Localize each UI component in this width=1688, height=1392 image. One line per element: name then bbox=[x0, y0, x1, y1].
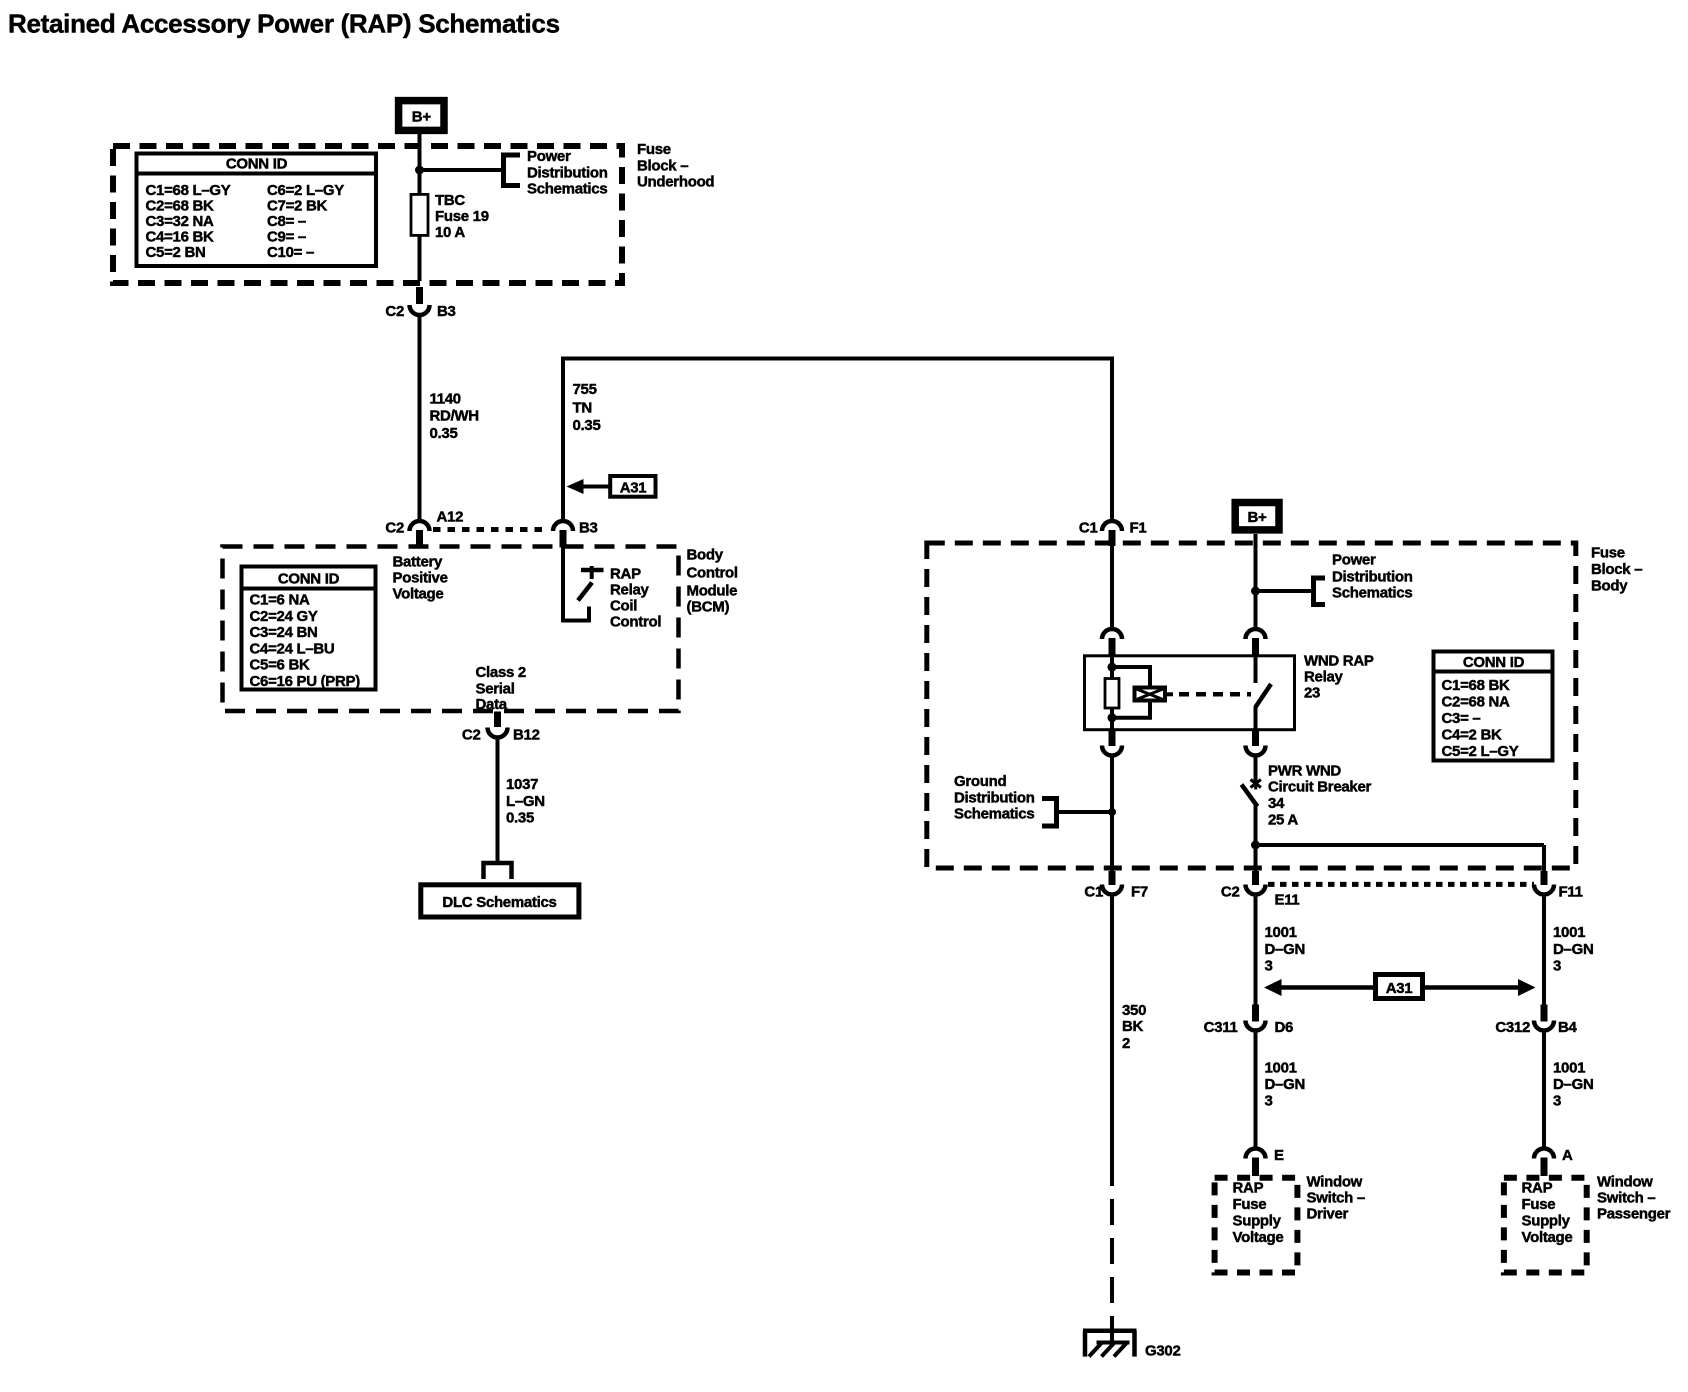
svg-text:TBC: TBC bbox=[435, 192, 465, 209]
svg-text:Distribution: Distribution bbox=[1332, 569, 1413, 586]
svg-text:Module: Module bbox=[687, 583, 738, 600]
svg-text:34: 34 bbox=[1268, 795, 1285, 812]
svg-text:G302: G302 bbox=[1145, 1343, 1181, 1360]
svg-text:C1: C1 bbox=[1079, 520, 1098, 537]
svg-text:1001: 1001 bbox=[1265, 1060, 1297, 1077]
svg-text:C7=2 BK: C7=2 BK bbox=[267, 198, 327, 215]
svg-text:CONN ID: CONN ID bbox=[226, 156, 288, 173]
svg-text:755: 755 bbox=[573, 381, 597, 398]
svg-text:C2: C2 bbox=[462, 727, 481, 744]
svg-text:Circuit Breaker: Circuit Breaker bbox=[1268, 779, 1372, 796]
svg-text:1037: 1037 bbox=[506, 776, 538, 793]
svg-text:C3=24 BN: C3=24 BN bbox=[250, 624, 318, 641]
svg-text:(BCM): (BCM) bbox=[687, 599, 730, 616]
svg-text:B3: B3 bbox=[579, 520, 598, 537]
svg-text:C1=6 NA: C1=6 NA bbox=[250, 592, 310, 609]
svg-text:1140: 1140 bbox=[430, 391, 461, 408]
svg-text:Power: Power bbox=[1332, 552, 1376, 569]
svg-text:D6: D6 bbox=[1275, 1019, 1294, 1036]
svg-text:D–GN: D–GN bbox=[1265, 1076, 1305, 1093]
svg-text:Control: Control bbox=[687, 565, 738, 582]
svg-text:D–GN: D–GN bbox=[1553, 941, 1593, 958]
svg-text:Voltage: Voltage bbox=[1522, 1229, 1573, 1246]
svg-text:C2: C2 bbox=[385, 303, 404, 320]
svg-text:0.35: 0.35 bbox=[573, 417, 601, 434]
svg-text:Control: Control bbox=[610, 614, 661, 631]
svg-text:C10= –: C10= – bbox=[267, 244, 314, 261]
svg-text:TN: TN bbox=[573, 400, 592, 417]
svg-text:Block –: Block – bbox=[1591, 561, 1642, 578]
svg-text:1001: 1001 bbox=[1553, 1060, 1585, 1077]
svg-text:C5=6 BK: C5=6 BK bbox=[250, 657, 310, 674]
svg-text:C2=68 BK: C2=68 BK bbox=[146, 198, 215, 215]
svg-text:Underhood: Underhood bbox=[637, 174, 714, 191]
svg-text:Schematics: Schematics bbox=[527, 181, 607, 198]
svg-text:C9= –: C9= – bbox=[267, 229, 306, 246]
svg-text:Schematics: Schematics bbox=[954, 806, 1034, 823]
svg-text:Schematics: Schematics bbox=[1332, 585, 1412, 602]
svg-text:Switch –: Switch – bbox=[1307, 1190, 1365, 1207]
svg-text:E11: E11 bbox=[1275, 892, 1300, 909]
svg-text:A31: A31 bbox=[1386, 980, 1413, 997]
svg-text:Data: Data bbox=[476, 696, 508, 713]
svg-text:C312: C312 bbox=[1495, 1019, 1530, 1036]
svg-text:F11: F11 bbox=[1559, 884, 1583, 901]
svg-text:RAP: RAP bbox=[1522, 1180, 1553, 1197]
svg-text:Voltage: Voltage bbox=[393, 586, 444, 603]
svg-text:2: 2 bbox=[1122, 1035, 1130, 1052]
svg-text:C6=2 L–GY: C6=2 L–GY bbox=[267, 182, 344, 199]
svg-text:A12: A12 bbox=[437, 509, 464, 526]
svg-text:CONN ID: CONN ID bbox=[278, 571, 340, 588]
svg-text:F7: F7 bbox=[1131, 884, 1148, 901]
svg-text:C5=2 L–GY: C5=2 L–GY bbox=[1442, 743, 1519, 760]
svg-text:A: A bbox=[1562, 1147, 1573, 1164]
svg-text:C5=2 BN: C5=2 BN bbox=[146, 244, 206, 261]
svg-text:PWR WND: PWR WND bbox=[1268, 763, 1341, 780]
svg-text:Supply: Supply bbox=[1522, 1213, 1571, 1230]
svg-text:C3= –: C3= – bbox=[1442, 710, 1481, 727]
svg-text:Ground: Ground bbox=[954, 773, 1006, 790]
svg-text:B4: B4 bbox=[1558, 1019, 1578, 1036]
svg-text:Passenger: Passenger bbox=[1597, 1206, 1671, 1223]
svg-text:3: 3 bbox=[1265, 958, 1273, 975]
svg-text:A31: A31 bbox=[620, 480, 647, 497]
svg-text:0.35: 0.35 bbox=[430, 425, 458, 442]
svg-text:E: E bbox=[1274, 1147, 1284, 1164]
svg-text:Window: Window bbox=[1307, 1174, 1363, 1191]
svg-text:C1=68 BK: C1=68 BK bbox=[1442, 677, 1511, 694]
svg-text:Switch –: Switch – bbox=[1597, 1190, 1655, 1207]
svg-text:RAP: RAP bbox=[1233, 1180, 1264, 1197]
svg-text:C3=32 NA: C3=32 NA bbox=[146, 213, 215, 230]
svg-text:RD/WH: RD/WH bbox=[430, 408, 479, 425]
svg-text:CONN ID: CONN ID bbox=[1463, 654, 1525, 671]
svg-text:C2=68 NA: C2=68 NA bbox=[1442, 694, 1511, 711]
svg-text:Distribution: Distribution bbox=[954, 790, 1035, 807]
svg-text:RAP: RAP bbox=[610, 566, 641, 583]
svg-text:10 A: 10 A bbox=[435, 224, 465, 241]
svg-text:C4=16 BK: C4=16 BK bbox=[146, 229, 215, 246]
svg-text:Positive: Positive bbox=[393, 570, 448, 587]
svg-text:C6=16 PU (PRP): C6=16 PU (PRP) bbox=[250, 673, 361, 690]
svg-text:3: 3 bbox=[1553, 958, 1561, 975]
svg-text:Power: Power bbox=[527, 148, 571, 165]
svg-text:D–GN: D–GN bbox=[1553, 1076, 1593, 1093]
svg-text:B+: B+ bbox=[1248, 509, 1268, 526]
svg-text:Retained Accessory Power (RAP): Retained Accessory Power (RAP) Schematic… bbox=[8, 9, 560, 39]
svg-text:C2: C2 bbox=[1221, 884, 1240, 901]
svg-text:Relay: Relay bbox=[1304, 669, 1343, 686]
svg-text:F1: F1 bbox=[1130, 520, 1147, 537]
svg-text:B+: B+ bbox=[412, 109, 432, 126]
svg-text:Fuse: Fuse bbox=[637, 141, 671, 158]
svg-text:BK: BK bbox=[1122, 1018, 1144, 1035]
svg-text:Voltage: Voltage bbox=[1233, 1229, 1284, 1246]
svg-text:C1=68 L–GY: C1=68 L–GY bbox=[146, 182, 231, 199]
svg-text:Distribution: Distribution bbox=[527, 165, 608, 182]
svg-text:Fuse: Fuse bbox=[1591, 545, 1625, 562]
svg-text:Window: Window bbox=[1597, 1174, 1653, 1191]
svg-text:DLC Schematics: DLC Schematics bbox=[442, 894, 556, 911]
svg-text:Fuse 19: Fuse 19 bbox=[435, 208, 489, 225]
svg-text:C1: C1 bbox=[1084, 884, 1103, 901]
svg-text:Fuse: Fuse bbox=[1233, 1196, 1267, 1213]
svg-text:C4=24 L–BU: C4=24 L–BU bbox=[250, 640, 335, 657]
svg-text:Supply: Supply bbox=[1233, 1213, 1282, 1230]
svg-text:Class 2: Class 2 bbox=[476, 664, 526, 681]
svg-text:1001: 1001 bbox=[1265, 924, 1297, 941]
svg-text:B3: B3 bbox=[437, 303, 456, 320]
svg-text:Relay: Relay bbox=[610, 582, 649, 599]
svg-text:B12: B12 bbox=[513, 727, 540, 744]
svg-text:C311: C311 bbox=[1204, 1019, 1238, 1036]
svg-text:C2: C2 bbox=[385, 520, 404, 537]
svg-text:Fuse: Fuse bbox=[1522, 1196, 1556, 1213]
svg-text:Body: Body bbox=[1591, 578, 1628, 595]
svg-text:C4=2 BK: C4=2 BK bbox=[1442, 727, 1502, 744]
svg-text:L–GN: L–GN bbox=[506, 793, 545, 810]
svg-text:25 A: 25 A bbox=[1268, 812, 1298, 829]
svg-text:WND RAP: WND RAP bbox=[1304, 653, 1374, 670]
svg-text:Serial: Serial bbox=[476, 681, 515, 698]
svg-text:350: 350 bbox=[1122, 1002, 1146, 1019]
svg-text:Block –: Block – bbox=[637, 158, 688, 175]
svg-text:1001: 1001 bbox=[1553, 924, 1585, 941]
svg-text:Battery: Battery bbox=[393, 554, 444, 571]
svg-text:Body: Body bbox=[687, 547, 724, 564]
svg-text:Driver: Driver bbox=[1307, 1206, 1349, 1223]
svg-text:C8= –: C8= – bbox=[267, 213, 306, 230]
svg-text:0.35: 0.35 bbox=[506, 810, 534, 827]
svg-text:23: 23 bbox=[1304, 685, 1320, 702]
svg-text:3: 3 bbox=[1553, 1093, 1561, 1110]
svg-text:C2=24 GY: C2=24 GY bbox=[250, 608, 318, 625]
svg-text:D–GN: D–GN bbox=[1265, 941, 1305, 958]
svg-text:3: 3 bbox=[1265, 1093, 1273, 1110]
svg-text:Coil: Coil bbox=[610, 598, 637, 615]
